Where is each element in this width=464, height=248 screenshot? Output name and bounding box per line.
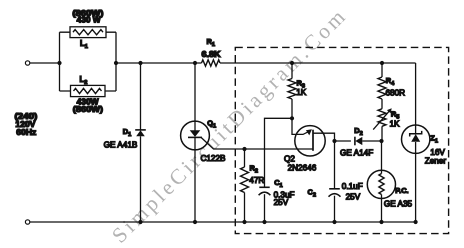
wire top input xyxy=(30,62,60,64)
svg-text:GE A41B: GE A41B xyxy=(104,141,138,150)
photocell PC GE A35 xyxy=(367,170,395,222)
resistor R1 6.8K xyxy=(202,60,221,66)
node C2 rail xyxy=(332,220,336,224)
node R3 top xyxy=(290,61,294,65)
svg-text:C1: C1 xyxy=(274,178,282,189)
svg-text:Zener: Zener xyxy=(425,157,447,166)
svg-text:R1: R1 xyxy=(207,37,215,48)
node R2 top xyxy=(242,147,246,151)
svg-text:25V: 25V xyxy=(346,193,361,202)
node Q1 top xyxy=(193,61,197,65)
resistor R3 1K xyxy=(288,63,296,118)
svg-text:GE A35: GE A35 xyxy=(384,199,413,208)
svg-text:0.1uF: 0.1uF xyxy=(342,182,363,191)
wire bottom rail xyxy=(30,221,416,223)
svg-text:47R: 47R xyxy=(249,176,264,185)
resistor R2 47R xyxy=(241,149,249,222)
node: lamp bank left xyxy=(57,61,61,65)
wire lamp bank right vertical xyxy=(115,32,117,91)
wire L2 stubs xyxy=(60,90,117,92)
svg-text:GE A14F: GE A14F xyxy=(340,149,373,158)
node D1 top xyxy=(138,61,142,65)
svg-text:680R: 680R xyxy=(386,88,406,97)
node R5/D2/PC xyxy=(379,139,383,143)
potentiometer R5 1K xyxy=(373,108,392,141)
node B2/C2/D2 xyxy=(332,139,336,143)
wire Q1 anode xyxy=(194,63,196,121)
svg-text:25V: 25V xyxy=(274,198,289,207)
svg-text:60Hz: 60Hz xyxy=(16,128,36,137)
svg-text:D2: D2 xyxy=(354,126,362,137)
wire R3 node to C1 xyxy=(265,118,293,187)
node PC rail xyxy=(379,220,383,224)
svg-text:R4: R4 xyxy=(386,76,395,87)
svg-text:Q2: Q2 xyxy=(284,154,295,163)
node R3 bottom xyxy=(290,116,294,120)
svg-text:L2: L2 xyxy=(80,75,88,86)
capacitor C2 0.1uF xyxy=(329,189,341,222)
dashed control-box border xyxy=(235,47,448,233)
bottom terminal xyxy=(25,220,29,224)
svg-text:Q1: Q1 xyxy=(207,118,216,129)
wire lamp bank left vertical xyxy=(59,32,61,91)
wire D2 left xyxy=(335,140,351,142)
wire Q1 gate to Q2 B1 xyxy=(201,138,313,149)
svg-text:P.C.: P.C. xyxy=(395,186,408,195)
node C1 rail xyxy=(262,220,266,224)
wire C2 branch xyxy=(334,141,336,189)
resistor R4 680R xyxy=(378,63,386,109)
node R4 top xyxy=(380,61,384,65)
svg-text:1K: 1K xyxy=(296,88,307,97)
wire Q2 emitter stub xyxy=(292,118,311,134)
svg-text:2N2646: 2N2646 xyxy=(288,163,317,172)
wire top rail inside box xyxy=(220,62,416,64)
input terminal top xyxy=(25,61,29,65)
svg-text:R2: R2 xyxy=(250,163,258,174)
node R2 rail xyxy=(242,220,246,224)
lamp L1 (430W/860W heater element) xyxy=(70,27,106,38)
UJT Q2 2N2646 xyxy=(295,126,325,156)
lamp L2 (430W/860W heater element) xyxy=(71,85,106,96)
svg-text:430 W: 430 W xyxy=(77,16,102,25)
node Q1 cathode rail xyxy=(193,220,197,224)
svg-text:(860W): (860W) xyxy=(73,105,104,114)
svg-text:6.8K: 6.8K xyxy=(202,50,221,59)
SCR Q1 C122B xyxy=(181,121,210,222)
node: lamp bank right xyxy=(114,61,118,65)
svg-text:D1: D1 xyxy=(123,127,131,138)
node D1 rail xyxy=(138,220,142,224)
capacitor C1 0.3uF xyxy=(259,187,271,222)
wire D1 branch xyxy=(140,63,142,222)
node Z1 rail xyxy=(414,220,418,224)
diode D2 GE A14F (points left) xyxy=(355,137,382,146)
svg-text:C122B: C122B xyxy=(200,154,226,163)
diode D1 GE A41B (cathode bar up, anode triangle) xyxy=(135,130,146,136)
wire PC top xyxy=(381,141,383,170)
wire Q2 B2 to node xyxy=(313,133,335,141)
wire top rail to R1 xyxy=(116,62,202,64)
svg-text:C2: C2 xyxy=(308,187,316,198)
watermark xyxy=(107,2,353,248)
zener Z1 16V xyxy=(402,125,430,153)
wire Z1 branch xyxy=(415,63,417,222)
svg-text:1K: 1K xyxy=(390,120,401,129)
svg-text:L1: L1 xyxy=(80,39,88,50)
svg-text:Z1: Z1 xyxy=(430,133,438,144)
wire L1 stubs xyxy=(60,31,117,33)
